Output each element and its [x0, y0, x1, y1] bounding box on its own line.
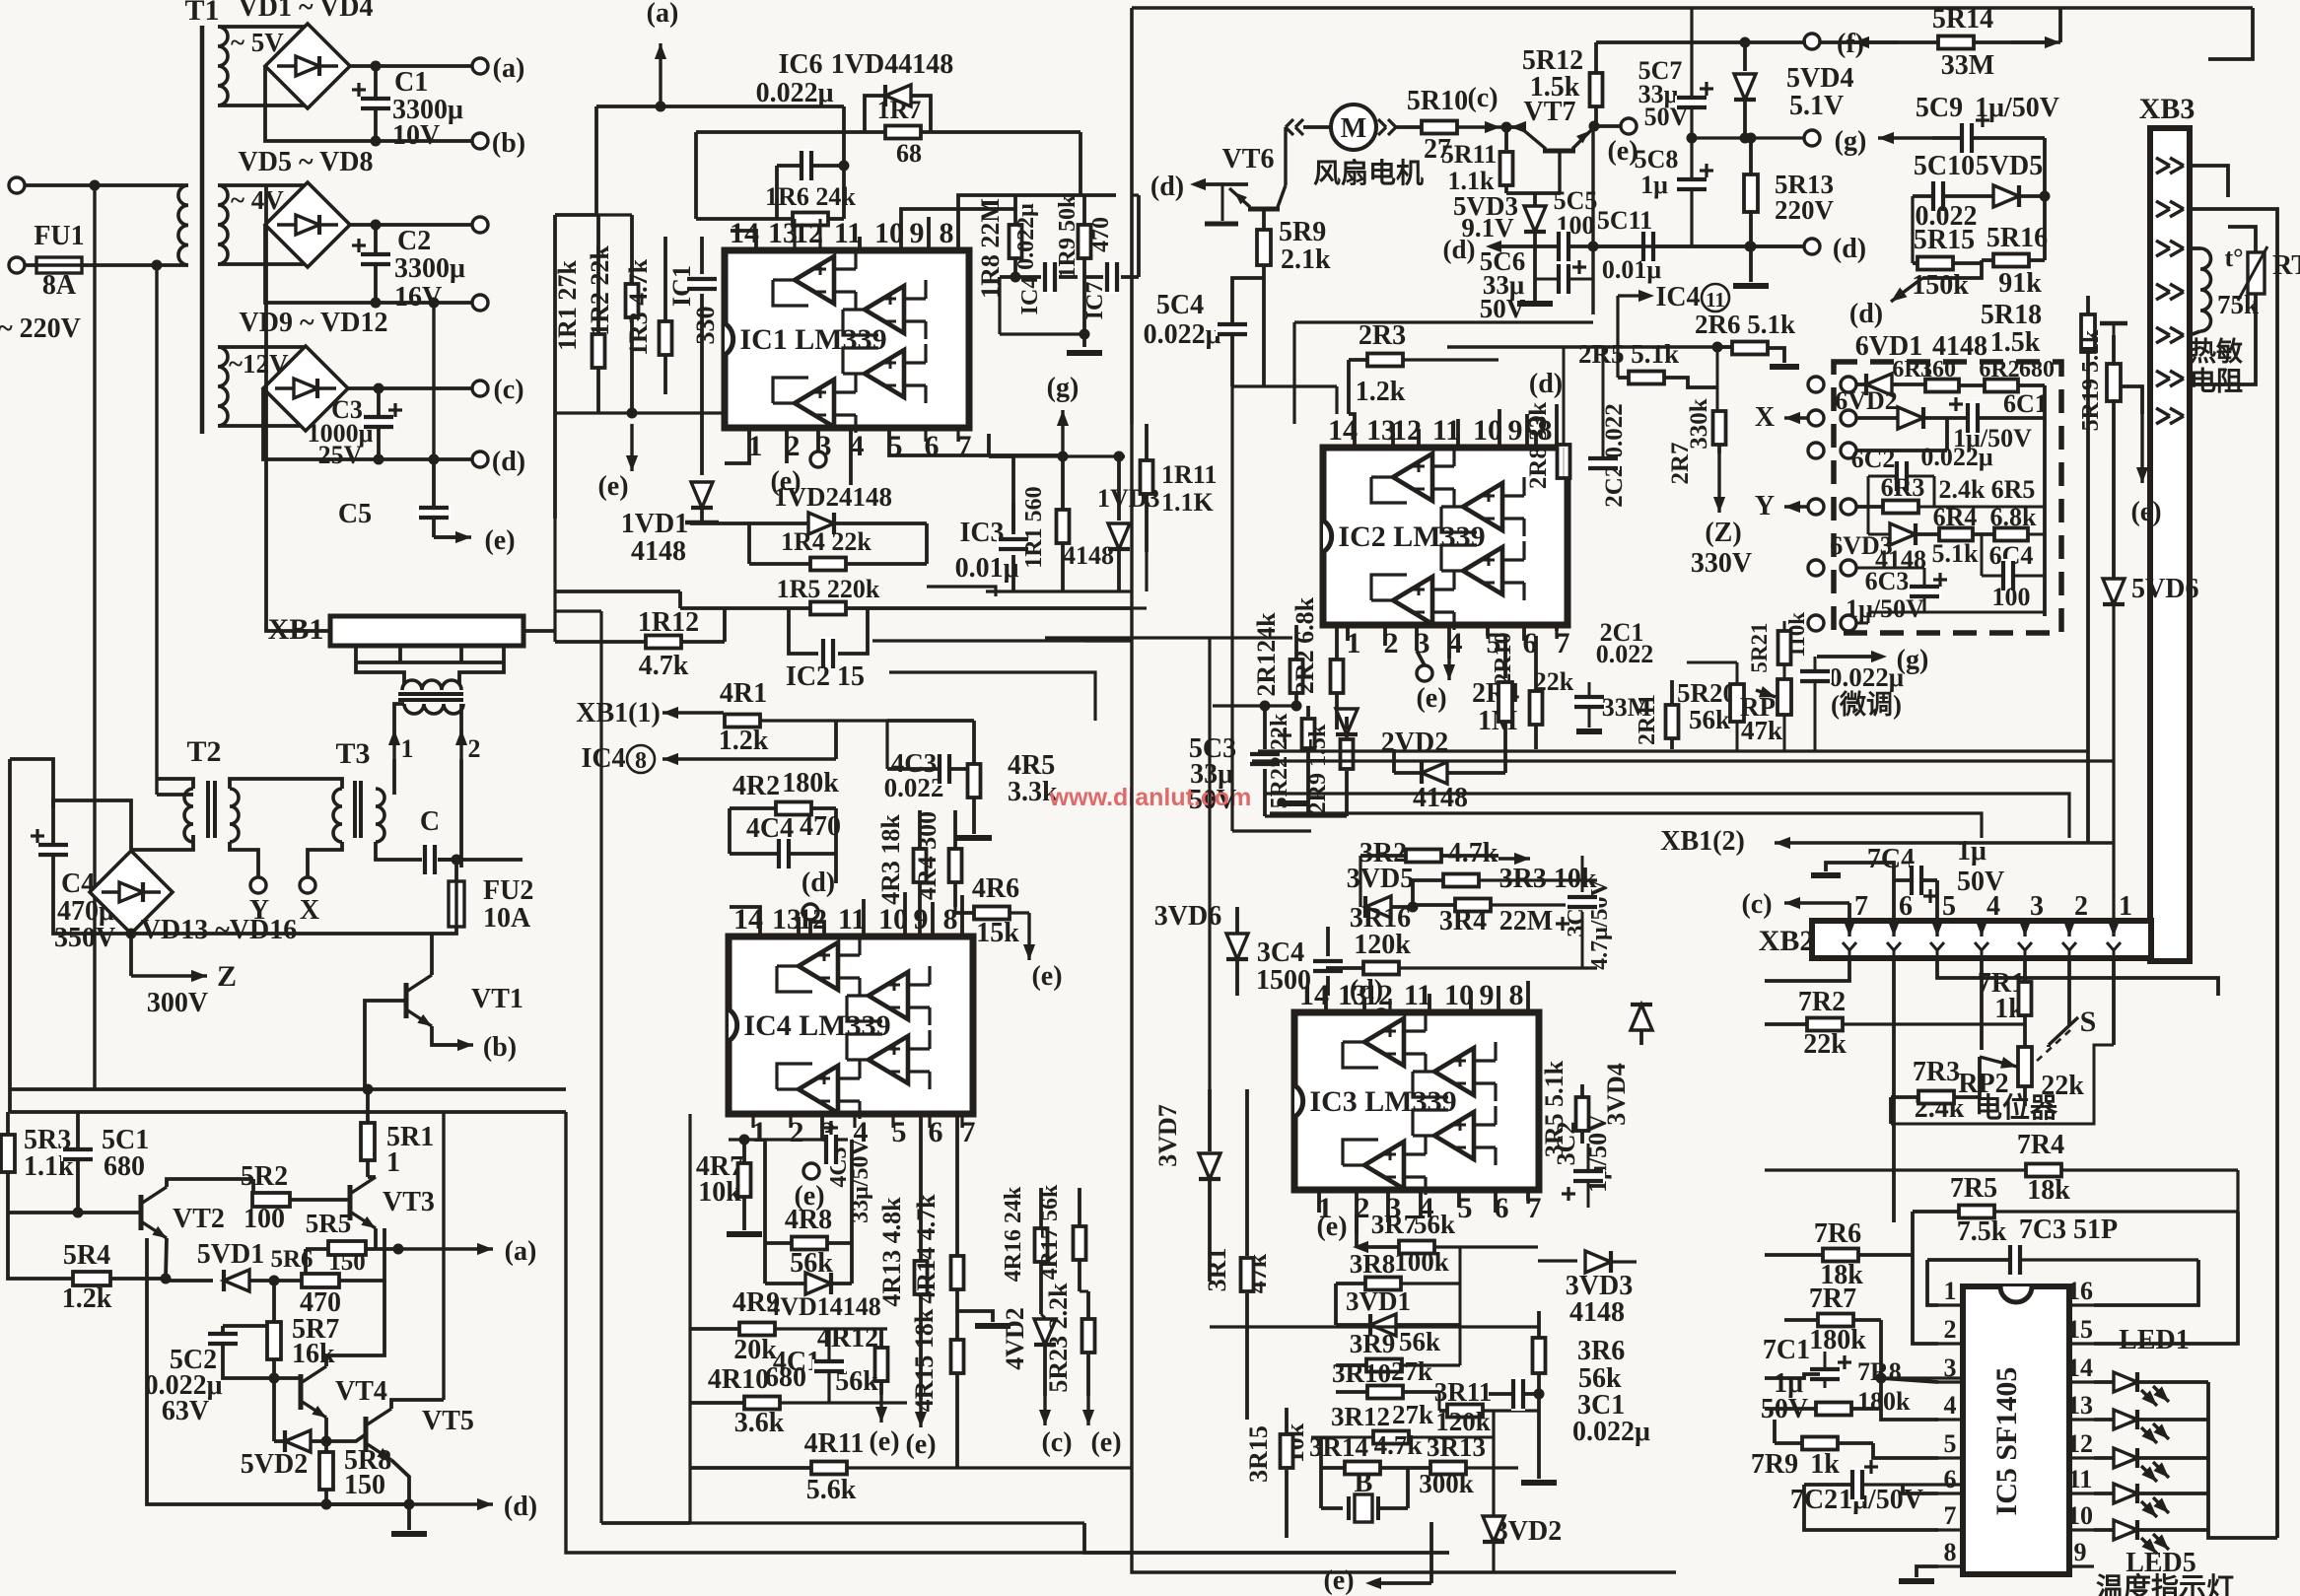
svg-text:3R8: 3R8: [1350, 1249, 1396, 1279]
arrow X: [1784, 416, 1808, 419]
svg-text:4R13 4.8k: 4R13 4.8k: [877, 1197, 906, 1307]
svg-text:3VD5: 3VD5: [1347, 864, 1414, 894]
ground: [407, 1504, 411, 1530]
svg-text:1R1 27k: 1R1 27k: [553, 260, 582, 351]
svg-text:(a): (a): [493, 53, 525, 84]
svg-text:3R6: 3R6: [1577, 1336, 1625, 1366]
resistor 5R9 2.1k: [1262, 211, 1266, 230]
svg-text:7: 7: [1944, 1501, 1957, 1530]
svg-text:(g): (g): [1047, 373, 1080, 403]
IC5 SF1405: [1963, 1286, 2069, 1574]
wire - bridge bottom bus: [53, 927, 394, 934]
wire VT2 collector up-right: [167, 1179, 253, 1187]
svg-text:8: 8: [1509, 979, 1524, 1011]
svg-text:350V: 350V: [54, 923, 115, 953]
svg-text:9: 9: [910, 217, 925, 249]
svg-text:5VD4: 5VD4: [1786, 63, 1853, 94]
svg-text:(Z): (Z): [1705, 518, 1741, 548]
wire bottom y327: [1294, 320, 1593, 323]
dashed control box: [1834, 362, 2061, 633]
svg-text:4R16 24k: 4R16 24k: [1001, 1186, 1026, 1282]
svg-text:7C3 51P: 7C3 51P: [2019, 1214, 2118, 1245]
svg-text:4148: 4148: [631, 536, 686, 567]
wire VT1 base: [365, 1001, 406, 1089]
svg-text:50V: 50V: [1480, 294, 1526, 323]
svg-text:5VD5: 5VD5: [1976, 151, 2043, 181]
svg-text:IC4: IC4: [1655, 282, 1700, 312]
svg-text:IC4: IC4: [1017, 277, 1043, 315]
wire (e) arrow: [1027, 913, 1030, 960]
svg-text:5R15: 5R15: [1914, 225, 1975, 255]
svg-text:(b): (b): [483, 1032, 517, 1063]
svg-text:VD1 ~ VD4: VD1 ~ VD4: [239, 0, 374, 23]
svg-text:4.7k: 4.7k: [1448, 838, 1498, 868]
arrow (e) mid: [879, 1395, 882, 1423]
svg-text:8: 8: [1944, 1538, 1957, 1566]
svg-text:www.dianlut.com: www.dianlut.com: [1049, 784, 1252, 811]
svg-text:4.7k: 4.7k: [639, 651, 689, 681]
wire 1R8 bus: [989, 193, 1116, 197]
wire VT2 emitter down: [166, 1238, 167, 1279]
capacitor 1C2 15: [789, 608, 818, 654]
wire VT3 emitter to (a) node: [374, 1228, 378, 1249]
svg-text:VT6: VT6: [1222, 144, 1275, 174]
diode 5VD2: [272, 1378, 276, 1441]
svg-text:VD5 ~ VD8: VD5 ~ VD8: [239, 147, 374, 177]
svg-text:4R11: 4R11: [804, 1428, 865, 1459]
svg-text:4R17 56k: 4R17 56k: [1037, 1184, 1063, 1280]
svg-text:15: 15: [2067, 1315, 2093, 1344]
IC3 LM339: [1294, 1012, 1539, 1190]
svg-text:7R2: 7R2: [1798, 987, 1846, 1017]
capacitor 1C6 0.022u: [800, 149, 813, 182]
svg-text:11: 11: [834, 217, 862, 249]
svg-text:IC5 SF1405: IC5 SF1405: [1990, 1367, 2023, 1516]
svg-text:5R2: 5R2: [241, 1161, 288, 1192]
svg-text:100k: 100k: [1394, 1247, 1449, 1277]
svg-text:27k: 27k: [1391, 1356, 1432, 1386]
svg-text:300V: 300V: [147, 988, 208, 1018]
wire top harness: [596, 104, 844, 108]
svg-text:7R5: 7R5: [1950, 1173, 1997, 1204]
svg-text:3R12: 3R12: [1331, 1402, 1390, 1431]
wire pins below XB2: [1765, 958, 1849, 981]
wire VT4 emitter to 5VD2 node: [324, 1418, 328, 1441]
ground mid: [957, 1311, 993, 1322]
svg-text:4R14 4.7k: 4R14 4.7k: [912, 1194, 941, 1304]
svg-text:8: 8: [635, 748, 647, 774]
wire bus rows to right: [1258, 749, 2088, 752]
svg-text:0.022μ: 0.022μ: [1920, 443, 1993, 471]
resistor 5R8 150: [324, 1441, 328, 1453]
transistor VT5: [364, 1417, 369, 1452]
svg-text:7R6: 7R6: [1814, 1218, 1861, 1249]
svg-text:2.1k: 2.1k: [1281, 244, 1331, 275]
zener 5VD6: [2103, 579, 2125, 604]
svg-text:5.1V: 5.1V: [1789, 91, 1844, 121]
wire main buses: [555, 609, 601, 612]
svg-text:VD13 ~VD16: VD13 ~VD16: [141, 915, 297, 945]
svg-text:91k: 91k: [1998, 268, 2042, 299]
svg-text:5VD6: 5VD6: [2131, 574, 2198, 604]
svg-text:3R9: 3R9: [1350, 1329, 1396, 1358]
svg-text:56k: 56k: [1414, 1210, 1455, 1239]
svg-text:75k: 75k: [2217, 290, 2259, 319]
svg-text:3VD7: 3VD7: [1153, 1104, 1182, 1167]
svg-text:2R11: 2R11: [1635, 694, 1660, 745]
svg-text:3VD1: 3VD1: [1346, 1286, 1411, 1316]
svg-text:5: 5: [1942, 891, 1956, 922]
arrow Z 300V: [131, 974, 207, 977]
wire IC5 left pins: [1927, 1260, 1938, 1305]
wire VT1 emitter to (b): [432, 1026, 463, 1045]
svg-text:4148: 4148: [1413, 783, 1468, 813]
svg-text:27k: 27k: [1392, 1400, 1433, 1429]
svg-text:2R9 1.5k: 2R9 1.5k: [1305, 724, 1331, 813]
svg-text:50V: 50V: [1957, 867, 2004, 897]
wire 5R1 top joins (b) bus: [363, 1084, 374, 1095]
svg-text:~ 4V: ~ 4V: [231, 185, 284, 215]
svg-text:2.4k: 2.4k: [1939, 475, 1986, 504]
svg-text:5C4: 5C4: [1156, 290, 1204, 320]
svg-text:3300μ: 3300μ: [394, 253, 465, 284]
svg-text:180k: 180k: [1857, 1387, 1911, 1416]
node 2R1/2R2: [1291, 701, 1302, 712]
svg-text:12: 12: [2067, 1429, 2093, 1458]
wire T2 left down to bridge: [131, 835, 193, 850]
ground XB2: [1826, 863, 1894, 880]
terminal (f) + 5R14 33M: [1804, 34, 1820, 49]
svg-text:4R8: 4R8: [785, 1205, 832, 1235]
svg-text:(c): (c): [1467, 83, 1498, 113]
row4 Y + 6R3 resistor: [1808, 499, 1824, 515]
svg-text:1.5k: 1.5k: [1530, 72, 1580, 103]
wire to (e): [434, 535, 463, 539]
IC1 LM339: [725, 250, 969, 428]
svg-text:1: 1: [2119, 891, 2132, 922]
svg-text:0.022μ: 0.022μ: [1013, 203, 1039, 270]
svg-text:(d): (d): [1443, 235, 1476, 264]
resistor 5R2 100: [252, 1193, 290, 1207]
svg-text:0.022μ: 0.022μ: [1829, 662, 1904, 692]
wire long horizontals center: [1084, 639, 1132, 642]
svg-text:680: 680: [765, 1362, 806, 1393]
transistor VT1: [404, 983, 409, 1018]
svg-text:4VD2: 4VD2: [1001, 1307, 1029, 1370]
svg-text:100: 100: [244, 1204, 285, 1234]
svg-text:VT5: VT5: [422, 1406, 474, 1436]
svg-text:(e): (e): [1031, 961, 1062, 992]
svg-text:3R11: 3R11: [1434, 1377, 1493, 1407]
svg-text:5.6k: 5.6k: [806, 1475, 857, 1505]
svg-text:VT4: VT4: [335, 1376, 387, 1407]
wire IC5 right pins: [2094, 1260, 2198, 1305]
svg-text:4R10: 4R10: [708, 1364, 769, 1395]
ground under 5VD3: [1517, 301, 1553, 307]
svg-text:S: S: [2080, 1006, 2097, 1038]
resistor 5R6 470: [302, 1274, 339, 1287]
svg-text:6C1: 6C1: [2003, 389, 2048, 418]
wire IC3 pins top: [1324, 996, 1328, 1012]
terminal (b): [472, 133, 488, 149]
svg-text:11: 11: [2068, 1465, 2093, 1493]
wire - (b)/(16V) bus down: [432, 303, 435, 459]
svg-text:3.6k: 3.6k: [734, 1408, 785, 1438]
svg-text:8: 8: [940, 217, 954, 249]
6R3 loop: [1867, 476, 1870, 507]
svg-text:360: 360: [1920, 357, 1956, 382]
winding ~4V: [218, 185, 228, 264]
svg-text:2: 2: [1944, 1315, 1957, 1344]
svg-text:C: C: [420, 806, 440, 837]
svg-text:(e): (e): [1090, 1427, 1121, 1458]
svg-text:2R124k: 2R124k: [1252, 612, 1281, 697]
svg-text:8: 8: [943, 903, 958, 936]
svg-text:电位器: 电位器: [1975, 1091, 2058, 1124]
bridge rectifier VD13~VD16: [90, 851, 173, 934]
svg-text:56k: 56k: [1689, 705, 1730, 734]
svg-text:16: 16: [2067, 1277, 2093, 1305]
svg-text:680: 680: [104, 1151, 145, 1182]
svg-text:1VD24148: 1VD24148: [774, 482, 892, 512]
svg-text:LED1: LED1: [2119, 1325, 2190, 1355]
svg-text:热敏: 热敏: [2190, 337, 2243, 367]
svg-text:5C8: 5C8: [1635, 145, 1679, 173]
svg-text:IC1 LM339: IC1 LM339: [739, 323, 886, 356]
svg-text:4R12: 4R12: [817, 1323, 878, 1353]
svg-text:5C10: 5C10: [1914, 151, 1975, 181]
winding ~12V: [218, 347, 228, 426]
svg-text:VD9 ~ VD12: VD9 ~ VD12: [240, 308, 388, 338]
svg-text:56k: 56k: [1399, 1327, 1440, 1356]
wire left edge verticals: [599, 611, 602, 1523]
wire 5VD1 node down: [269, 1276, 280, 1286]
row1: diode 6VD1 + 6R1 360 + 6R2 680: [1808, 377, 1824, 392]
svg-text:X: X: [300, 895, 319, 926]
svg-text:680: 680: [2019, 357, 2055, 382]
terminal (e) pin3: [810, 451, 826, 467]
thermistor RT: [2200, 248, 2211, 331]
wire pins bottom IC3: [1317, 1190, 1321, 1213]
wire bus y1346: [1210, 1325, 1539, 1328]
svg-text:7C4: 7C4: [1867, 844, 1915, 874]
svg-text:3R14: 3R14: [1309, 1432, 1368, 1462]
svg-text:X: X: [1755, 402, 1775, 433]
resistor 3R3 10k: [1443, 874, 1479, 887]
svg-text:4R3 18k: 4R3 18k: [876, 814, 905, 905]
svg-text:10k: 10k: [698, 1177, 741, 1208]
svg-text:(d): (d): [504, 1492, 537, 1522]
svg-text:~ 220V: ~ 220V: [0, 313, 81, 344]
svg-text:3R15: 3R15: [1244, 1425, 1273, 1483]
svg-text:330k: 330k: [1686, 398, 1712, 450]
svg-text:(d): (d): [1150, 172, 1184, 202]
svg-text:C1: C1: [394, 67, 428, 98]
svg-text:M: M: [1341, 113, 1366, 144]
svg-text:VT1: VT1: [471, 984, 523, 1014]
svg-text:1k: 1k: [1810, 1449, 1840, 1480]
svg-text:1: 1: [401, 734, 414, 763]
terminal - mains input bottom: [9, 257, 25, 273]
wire - bridge3 out to (c): [348, 386, 472, 390]
svg-text:T1: T1: [184, 0, 219, 27]
wire - bridge3 bottom to (d): [263, 388, 472, 459]
terminal (e) pin3: [803, 1163, 819, 1179]
resistor 1R11 1.1K: [1145, 424, 1149, 459]
arrows (c) (e): [1043, 1396, 1046, 1425]
svg-text:T2: T2: [186, 735, 221, 768]
svg-text:电阻: 电阻: [2190, 367, 2243, 396]
svg-text:20k: 20k: [733, 1335, 777, 1365]
svg-text:(e): (e): [905, 1429, 936, 1460]
svg-text:(e): (e): [1323, 1565, 1354, 1596]
wire bottom region: [690, 1521, 1084, 1524]
6C4 cap: [1981, 534, 1984, 576]
svg-text:T3: T3: [335, 737, 370, 770]
wire (d) bottom bus: [147, 1238, 409, 1504]
svg-text:180k: 180k: [782, 768, 839, 798]
svg-text:0.022μ: 0.022μ: [1572, 1417, 1650, 1447]
wire right to 1R8 bus: [1079, 132, 1082, 195]
resistor 5R1 1: [366, 1089, 370, 1124]
svg-text:IC6: IC6: [778, 49, 822, 80]
svg-text:IC7: IC7: [1082, 282, 1108, 320]
svg-text:3R1: 3R1: [1203, 1248, 1231, 1292]
wire FU2 top: [454, 860, 458, 881]
capacitor C2 3300u/16V: [374, 225, 378, 303]
svg-text:(e): (e): [1316, 1212, 1347, 1242]
svg-text:9: 9: [1508, 414, 1523, 447]
svg-text:2: 2: [468, 734, 481, 763]
svg-text:1.2k: 1.2k: [719, 726, 769, 756]
svg-text:4R9: 4R9: [732, 1287, 780, 1318]
svg-text:IC4 LM339: IC4 LM339: [743, 1009, 890, 1042]
svg-text:(b): (b): [492, 128, 525, 159]
svg-text:4VD14148: 4VD14148: [767, 1292, 881, 1321]
arrow (Z) 330V: [1717, 453, 1720, 513]
svg-text:5R9: 5R9: [1279, 217, 1326, 247]
wire (a) arrow: [398, 1247, 493, 1250]
svg-text:VT2: VT2: [173, 1204, 225, 1234]
row6 + 6C3 1u/50V: [1808, 560, 1824, 576]
transistor VT4: [299, 1374, 304, 1410]
svg-text:220V: 220V: [1775, 195, 1835, 225]
svg-text:4R1: 4R1: [720, 678, 767, 709]
svg-text:7R4: 7R4: [2017, 1130, 2064, 1160]
svg-text:C5: C5: [338, 499, 372, 529]
resistor 3R4 22M: [1455, 899, 1491, 912]
svg-text:IC2 LM339: IC2 LM339: [1338, 520, 1485, 553]
svg-text:(e): (e): [484, 525, 515, 556]
svg-text:11: 11: [838, 903, 866, 936]
row7 terminals: [1808, 615, 1824, 631]
svg-text:22k: 22k: [1803, 1029, 1847, 1060]
capacitor 0.022u trimmer: [1798, 669, 1832, 683]
svg-text:风扇电机: 风扇电机: [1313, 157, 1424, 189]
terminal (d): [472, 451, 488, 467]
svg-text:4.7μ/50V: 4.7μ/50V: [1587, 879, 1613, 970]
wire - bridge2 out: [350, 223, 472, 227]
svg-text:3R13: 3R13: [1427, 1432, 1486, 1462]
IC4 LM339: [729, 937, 973, 1114]
svg-text:5.1k: 5.1k: [1932, 539, 1980, 568]
svg-text:5R6: 5R6: [270, 1246, 313, 1273]
svg-text:1R1 560: 1R1 560: [1021, 486, 1047, 568]
svg-text:0.022: 0.022: [1596, 640, 1654, 668]
wire - bridge1 out to (a): [350, 64, 472, 68]
capacitor C5: [432, 459, 436, 537]
svg-text:470: 470: [1088, 217, 1114, 252]
wire T3 right to C: [376, 842, 422, 860]
wire vertical x1481: [1459, 1247, 1462, 1365]
diode 5VD1: [224, 1270, 249, 1291]
resistor 5R4 1.2k: [8, 1213, 73, 1279]
svg-text:(c): (c): [1041, 1427, 1072, 1458]
wire - vertical drop x96: [93, 185, 96, 1089]
svg-text:1VD1: 1VD1: [621, 509, 688, 539]
svg-text:5R5: 5R5: [306, 1209, 352, 1238]
svg-text:1R5 220k: 1R5 220k: [777, 575, 880, 603]
node + ground: [1080, 329, 1090, 340]
diode 1VD1 4148: [700, 414, 704, 475]
svg-text:5R21: 5R21: [1747, 622, 1772, 672]
svg-text:7R9: 7R9: [1751, 1449, 1798, 1480]
wire to VT4 base: [223, 1370, 301, 1378]
svg-text:14: 14: [2067, 1353, 2093, 1382]
svg-text:XB2: XB2: [1759, 925, 1815, 957]
wire IC2 pins top: [1349, 414, 1355, 448]
svg-text:5R20: 5R20: [1677, 678, 1736, 708]
svg-text:5: 5: [1944, 1429, 1957, 1458]
svg-text:FU1: FU1: [34, 221, 84, 251]
wire pins top: [731, 231, 756, 250]
wire - vertical drop x159: [82, 263, 188, 267]
svg-text:6: 6: [1944, 1465, 1957, 1493]
wire VT5 emitter: [391, 1460, 409, 1504]
wire pins bottom: [725, 428, 749, 463]
svg-text:10V: 10V: [392, 120, 440, 151]
svg-text:(e): (e): [1416, 683, 1446, 714]
svg-text:(e): (e): [869, 1426, 899, 1457]
svg-text:(e): (e): [2130, 497, 2161, 527]
svg-text:1μ/50V: 1μ/50V: [1975, 93, 2059, 123]
svg-text:1μ: 1μ: [1640, 171, 1668, 199]
arrow (e) right: [2140, 414, 2143, 483]
svg-text:0.01μ: 0.01μ: [955, 553, 1019, 584]
capacitor 5C2 0.022u 63V: [223, 1324, 274, 1328]
svg-text:7R7: 7R7: [1809, 1284, 1856, 1314]
capacitor C1 3300u/10V: [374, 66, 378, 141]
wire - left feeds: [555, 213, 598, 217]
svg-text:(a): (a): [647, 0, 679, 29]
capacitor C3 1000u/25V: [377, 388, 381, 459]
wire 5R5 left to 5VD1 node: [304, 1249, 308, 1281]
wire pin4 pin5: [849, 428, 853, 485]
svg-text:150: 150: [344, 1470, 385, 1500]
terminal: [472, 217, 488, 233]
wire - block top border: [10, 1110, 566, 1114]
svg-text:2R5 5.1k: 2R5 5.1k: [1578, 339, 1679, 369]
svg-text:150k: 150k: [1912, 270, 1969, 301]
ground tick near VT6: [1221, 184, 1224, 221]
svg-text:8A: 8A: [42, 270, 77, 301]
svg-text:7R3: 7R3: [1913, 1057, 1960, 1087]
resistor 5R7 16k: [272, 1323, 276, 1326]
svg-text:7.5k: 7.5k: [1957, 1216, 2007, 1247]
svg-text:1μ: 1μ: [1957, 836, 1986, 867]
svg-text:6R5: 6R5: [1991, 475, 2036, 504]
svg-text:1R7: 1R7: [877, 96, 922, 124]
